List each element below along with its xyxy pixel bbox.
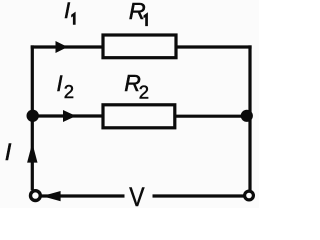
wire left vertical bbox=[31, 45, 34, 190]
svg-text:I: I bbox=[5, 139, 12, 166]
wire top branch right segment bbox=[176, 45, 252, 48]
wire bottom left segment bbox=[42, 194, 125, 197]
terminal bottom-left (open circle) bbox=[31, 191, 41, 201]
wire bottom right segment bbox=[153, 194, 245, 197]
svg-text:V: V bbox=[129, 182, 145, 208]
svg-text:R: R bbox=[129, 0, 146, 24]
svg-text:2: 2 bbox=[139, 82, 149, 103]
svg-text:I: I bbox=[64, 0, 70, 23]
wire right vertical bbox=[248, 45, 251, 190]
wire top branch left segment bbox=[31, 45, 103, 48]
resistor R1 bbox=[103, 35, 176, 58]
arrow I (left wire, pointing up) bbox=[27, 143, 37, 163]
node A (left junction dot) bbox=[27, 110, 39, 122]
wire middle branch left segment bbox=[33, 114, 103, 117]
label I1 subscript 1 bbox=[71, 12, 75, 25]
node B (right junction dot) bbox=[241, 110, 253, 122]
arrow I1 (top branch, pointing right) bbox=[56, 41, 68, 53]
svg-text:I: I bbox=[57, 71, 63, 96]
arrow I2 (middle branch, pointing right) bbox=[63, 110, 76, 122]
arrow V (bottom wire, pointing left) bbox=[42, 191, 61, 201]
svg-text:2: 2 bbox=[64, 81, 74, 102]
label R1 subscript 1 bbox=[144, 12, 148, 26]
resistor R2 bbox=[103, 105, 175, 128]
wire middle branch right segment bbox=[175, 115, 250, 118]
terminal bottom-right (open circle) bbox=[245, 191, 254, 200]
